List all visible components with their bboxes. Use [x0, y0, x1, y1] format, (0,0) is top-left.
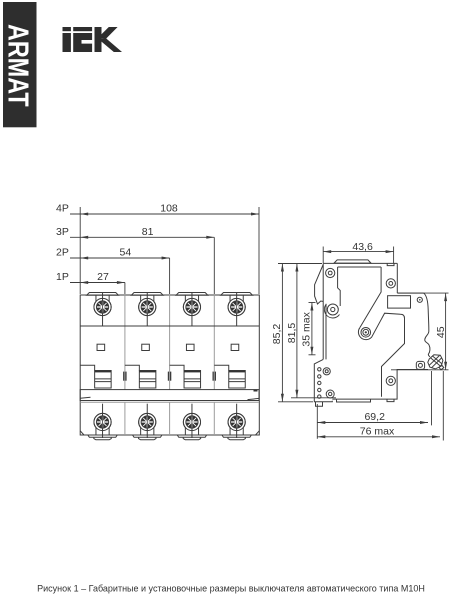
clip circle 2: [318, 375, 321, 378]
top-left screw: [326, 268, 335, 277]
svg-text:81: 81: [142, 226, 154, 238]
dim line 3P: [70, 236, 214, 238]
bottom-right screw: [386, 376, 395, 385]
ext line 3P: [213, 237, 215, 294]
dim line 45: [445, 293, 447, 370]
top right notch: [387, 263, 394, 265]
arrow 69.2 right: [420, 421, 428, 424]
breaker body outline: [80, 295, 259, 435]
mid-left screw: [327, 304, 338, 315]
arrow 2P right: [162, 257, 170, 260]
svg-text:54: 54: [120, 247, 132, 259]
dim line 85.2: [281, 264, 283, 402]
pole module 3: [170, 293, 208, 440]
IEK letter K upper arm: [102, 27, 118, 39]
tie bar left wedge: [80, 397, 90, 398]
tie bar connector mark 1: [123, 372, 127, 381]
handle window screw: [417, 297, 422, 302]
bottom-left corner chamfer: [80, 431, 84, 435]
dim line 76max: [317, 436, 440, 438]
ext 43.6 right: [393, 247, 395, 264]
tie bar right notch: [254, 390, 258, 392]
ext 45 bottom: [391, 369, 449, 371]
ext bottom 85.2: [278, 401, 313, 403]
clip screw lower: [326, 390, 334, 398]
ext top (85.2/81.5): [278, 263, 322, 265]
arrow 85.2 bottom: [281, 394, 284, 402]
bottom-right corner chamfer: [256, 431, 260, 435]
clip foot: [316, 402, 323, 407]
dim line 43.6: [323, 251, 393, 253]
ext line 2P: [169, 258, 171, 294]
inner step left: [338, 267, 341, 306]
inner contour arm: [358, 313, 404, 397]
clip screw upper: [323, 368, 330, 375]
svg-text:ARMAT: ARMAT: [2, 24, 35, 107]
arrow 76max left: [317, 435, 325, 438]
pole module 4: [214, 293, 252, 440]
svg-text:35 max: 35 max: [301, 311, 313, 346]
clip circle 5: [318, 395, 321, 398]
ext 76max right: [442, 371, 444, 441]
IEK letter E top bar: [73, 27, 92, 31]
clip circle 3: [318, 381, 321, 384]
ext 69.2 right: [431, 371, 433, 425]
latch body: [428, 355, 443, 369]
dim line 1P: [70, 282, 125, 284]
ext 76max left: [316, 425, 318, 439]
IEK letter E body: [73, 33, 92, 52]
dim line 4P: [70, 213, 259, 215]
svg-text:45: 45: [435, 326, 447, 338]
module separator 2: [169, 295, 171, 435]
pole module 2: [125, 293, 163, 440]
top-right screw: [386, 279, 395, 288]
arrow 1P right: [117, 281, 125, 284]
tie bar connector mark 3: [213, 372, 217, 381]
bottom tab strip: [337, 399, 371, 402]
pole module 1: [80, 293, 118, 440]
handle tie bar: [80, 390, 259, 401]
DIN clip block: [314, 359, 332, 401]
arrow 45 top: [444, 293, 447, 301]
svg-text:76 max: 76 max: [360, 426, 395, 438]
arrow 3P left: [80, 236, 88, 239]
arrow 3P right: [206, 236, 214, 239]
svg-text:2P: 2P: [56, 247, 69, 259]
arrow 76max right: [432, 435, 440, 438]
left edge upper: [315, 263, 324, 359]
IEK logo: [63, 27, 123, 52]
dim line 81.5: [296, 264, 298, 398]
svg-text:81,5: 81,5: [286, 323, 298, 344]
dim line 35max: [311, 303, 313, 355]
svg-text:Рисунок 1 – Габаритные и устан: Рисунок 1 – Габаритные и установочные ра…: [37, 584, 425, 594]
bottom right notch tab: [387, 399, 394, 402]
left extension line: [79, 207, 81, 294]
body top edge: [323, 262, 397, 264]
arrow 2P left: [80, 257, 88, 260]
clip circle 4: [318, 388, 321, 391]
svg-text:4P: 4P: [56, 203, 69, 215]
lever housing top: [397, 292, 423, 294]
lever pivot: [428, 346, 430, 358]
module separator 1: [124, 295, 126, 435]
arrow 45 bottom: [444, 362, 447, 370]
upper terminal section line: [80, 325, 259, 327]
IEK letter i stem: [63, 33, 71, 52]
arrow 35max top: [310, 303, 313, 311]
mid-left screw housing: [324, 304, 339, 318]
arrow 81.5 bottom: [295, 390, 298, 398]
handle window: [388, 296, 411, 308]
svg-text:108: 108: [160, 203, 178, 215]
arrow 81.5 top: [295, 264, 298, 272]
ext 43.6 left: [322, 247, 324, 264]
svg-text:85,2: 85,2: [271, 324, 283, 345]
ext 35max top: [309, 302, 316, 304]
arrow 1P left: [80, 281, 88, 284]
inner contour top: [338, 267, 382, 327]
lever front curve: [424, 293, 430, 345]
ext line 1P: [124, 283, 126, 295]
svg-text:43,6: 43,6: [352, 241, 373, 253]
tie bar connector mark 2: [168, 372, 172, 381]
tie bar right wedge: [248, 398, 260, 399]
dim line 69.2: [317, 422, 428, 424]
ext 35max bottom: [309, 354, 316, 356]
ARMAT banner: [3, 2, 37, 127]
arrow 4P right: [251, 213, 259, 216]
arrow 4P left: [80, 213, 88, 216]
IEK letter i dot: [63, 27, 71, 31]
body bottom right: [332, 370, 428, 400]
ext 45 top: [398, 292, 449, 294]
ext 69.2 left: [316, 404, 318, 425]
right extension line: [258, 207, 260, 294]
arrow 69.2 left: [317, 421, 325, 424]
arrow 35max bottom: [310, 347, 313, 355]
arrow 43.6 left: [323, 250, 331, 253]
svg-text:3P: 3P: [56, 226, 69, 238]
dim line 2P: [70, 257, 170, 259]
middle screw: [361, 328, 371, 338]
clip circle 1: [318, 368, 321, 371]
top cap: [334, 260, 371, 263]
right edge: [396, 263, 398, 293]
IEK letter K stem: [95, 27, 102, 52]
arrow 43.6 right: [386, 250, 394, 253]
latch screw: [418, 363, 422, 367]
IEK letter K lower arm: [102, 38, 123, 52]
left edge shaft: [325, 304, 327, 360]
svg-text:1P: 1P: [56, 271, 69, 283]
lower body line: [80, 401, 259, 403]
latch screw washer: [416, 361, 424, 369]
latch tail: [439, 365, 444, 370]
arrow 85.2 top: [281, 264, 284, 272]
latch hatch: [429, 356, 442, 368]
module separator 3: [213, 295, 215, 435]
ext bottom 81.5: [291, 397, 336, 399]
svg-text:69,2: 69,2: [364, 411, 385, 423]
svg-text:27: 27: [97, 271, 109, 283]
